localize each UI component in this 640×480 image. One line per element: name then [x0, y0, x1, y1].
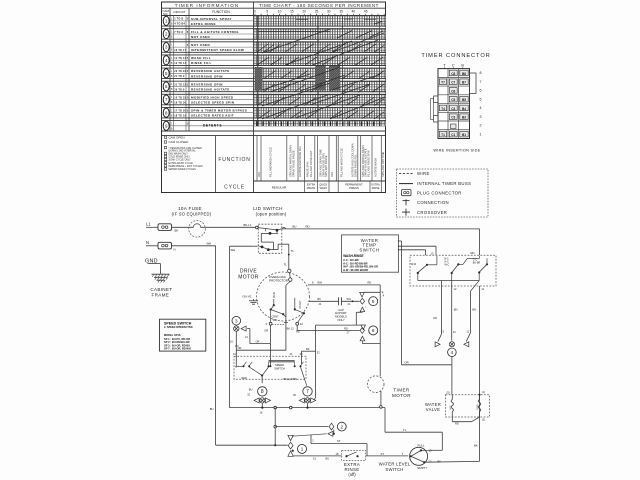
- bottom distribution wire y=407: [230, 407, 386, 409]
- svg-text:4: 4: [480, 106, 482, 110]
- svg-text:SPEED SWITCH: SPEED SWITCH: [164, 322, 192, 326]
- extra rinse label: [344, 462, 360, 477]
- svg-text:MODEL SP16: MODEL SP16: [164, 333, 181, 337]
- svg-text:RINSE: RINSE: [372, 187, 380, 190]
- wire motor top to right bus (WH): [308, 281, 380, 285]
- svg-text:BK-L1: BK-L1: [244, 223, 252, 227]
- svg-text:OFF: OFF: [257, 171, 261, 177]
- water level switch label: [379, 462, 411, 472]
- svg-text:35: 35: [339, 10, 343, 14]
- svg-text:30: 30: [327, 10, 331, 14]
- svg-text:GN-YE: GN-YE: [243, 295, 252, 299]
- wire bottom cluster diagonal to triangle: [292, 429, 335, 436]
- svg-text:1 TO B: 1 TO B: [174, 18, 183, 21]
- svg-text:ST: ST: [337, 439, 341, 443]
- cam rows: [162, 16, 386, 136]
- plug triangle below connector 5: [360, 307, 367, 312]
- legend notes cell: [164, 135, 203, 171]
- svg-text:12 TO 14: 12 TO 14: [174, 62, 186, 65]
- svg-text:SELECTED RATES AGIT: SELECTED RATES AGIT: [191, 114, 234, 118]
- svg-text:OFF: OFF: [330, 171, 334, 177]
- svg-text:BK: BK: [318, 297, 322, 301]
- svg-text:WH: WH: [347, 297, 351, 301]
- svg-text:N: N: [174, 248, 176, 252]
- wire contact 13 down to valve connector: [433, 281, 444, 342]
- legend crossover entry: [402, 209, 447, 216]
- svg-text:10: 10: [278, 10, 282, 14]
- svg-text:MOTOR: MOTOR: [238, 274, 259, 280]
- time scale labels 0-45: [254, 10, 384, 16]
- right bus from lid switch down: [479, 229, 481, 462]
- connector circle 7: [293, 387, 312, 397]
- connector circle 4: [448, 348, 457, 357]
- diamond plug at connector 2: [329, 423, 334, 430]
- svg-text:TL: TL: [284, 263, 288, 267]
- svg-text:B5: B5: [462, 98, 466, 102]
- wire plug to left bus corner (WH): [172, 241, 216, 246]
- svg-text:RD: RD: [368, 281, 372, 285]
- wire connector 4 to water valve: [451, 357, 453, 365]
- svg-text:0: 0: [254, 10, 256, 14]
- svg-text:(5): (5): [447, 391, 450, 395]
- wire to connector 2: [275, 426, 328, 428]
- timer connector left tabs: [431, 96, 438, 122]
- svg-text:T7: T7: [441, 81, 445, 85]
- left neutral bus down: [215, 246, 217, 445]
- svg-text:21 TO 9: 21 TO 9: [174, 75, 185, 78]
- wire triangle to OR junction (21): [245, 329, 270, 344]
- wire water level switch to right bus: [424, 460, 479, 463]
- svg-text:(off): (off): [348, 472, 356, 477]
- lid switch contacts: [255, 226, 288, 251]
- wire N to plug: [146, 245, 158, 247]
- svg-text:20: 20: [302, 10, 306, 14]
- speed switch box (dashed): [234, 356, 306, 379]
- svg-text:B8: B8: [462, 72, 466, 76]
- temp contact W-W: [411, 256, 437, 281]
- svg-text:PROTECTOR: PROTECTOR: [269, 278, 289, 282]
- svg-text:OR: OR: [405, 360, 409, 364]
- motor main winding: [270, 292, 276, 311]
- svg-text:SELECTED SPEED SPIN: SELECTED SPEED SPIN: [191, 101, 234, 105]
- lid switch SW1 (dashed box): [258, 224, 282, 253]
- svg-text:6: 6: [372, 328, 375, 333]
- wire temp box to contact 13: [398, 246, 436, 255]
- svg-text:SPIN & TIMER MOTOR BYPASS: SPIN & TIMER MOTOR BYPASS: [191, 109, 247, 113]
- svg-text:BU: BU: [326, 456, 330, 460]
- connector circle 8: [247, 387, 267, 397]
- connector circle 6: [369, 326, 378, 335]
- svg-text:8: 8: [261, 389, 264, 395]
- svg-text:C8: C8: [451, 72, 455, 76]
- svg-text:8: 8: [480, 71, 482, 75]
- temp contact H-C: [445, 256, 480, 281]
- svg-text:4: 4: [451, 350, 454, 355]
- svg-text:INTERNAL TIMER BUSS: INTERNAL TIMER BUSS: [417, 181, 471, 186]
- svg-text:AGITATE AND WASH FILL: AGITATE AND WASH FILL: [298, 145, 302, 177]
- plug connector P1: [158, 224, 172, 231]
- speed switch labels 10 11 5: [233, 352, 303, 369]
- svg-text:1: 1: [301, 447, 304, 452]
- svg-text:EMPTY: EMPTY: [418, 466, 428, 470]
- svg-text:SWITCH: SWITCH: [274, 367, 285, 371]
- valve solenoid hot (coil): [447, 391, 454, 412]
- svg-text:L1: L1: [146, 221, 151, 226]
- svg-text:RINSE FILL: RINSE FILL: [191, 61, 212, 65]
- svg-text:4 TO B4: 4 TO B4: [174, 23, 185, 26]
- wire motor main to OR run: [236, 346, 286, 350]
- crossover below connector 3: [234, 326, 239, 331]
- svg-text:20 TO 22: 20 TO 22: [174, 70, 186, 73]
- diamond plug at connector 1: [288, 442, 293, 449]
- svg-text:C5: C5: [451, 98, 455, 102]
- connector circle 3: [232, 316, 241, 325]
- svg-text:12 TO 13: 12 TO 13: [174, 57, 186, 60]
- svg-text:BU(L)/SPIN: BU(L)/SPIN: [284, 377, 298, 381]
- temp contact rail: [418, 280, 479, 282]
- svg-text:FULL: FULL: [418, 444, 425, 448]
- svg-text:3: 3: [235, 318, 238, 323]
- wire lid switch to overload (TL): [284, 244, 295, 269]
- svg-text:6: 6: [480, 89, 482, 93]
- svg-text:2: 2: [341, 424, 344, 429]
- svg-text:(1): (1): [482, 390, 485, 394]
- svg-text:CIRCUIT: CIRCUIT: [173, 10, 185, 14]
- wire connector 6 to bus: [360, 336, 380, 343]
- svg-text:15: 15: [290, 10, 294, 14]
- label lid switch: [253, 206, 287, 216]
- motor neutral bus down: [229, 246, 231, 407]
- cycle row: [254, 181, 386, 193]
- svg-text:RD: RD: [344, 327, 348, 331]
- svg-text:BU: BU: [249, 387, 253, 391]
- svg-text:15 TO 32: 15 TO 32: [174, 96, 186, 99]
- svg-text:FILL AND WASH CYCLE: FILL AND WASH CYCLE: [268, 147, 272, 177]
- wire overload into motor: [284, 281, 290, 350]
- svg-text:FRAME: FRAME: [152, 292, 170, 297]
- svg-text:ST: ST: [381, 452, 385, 456]
- plug triangles and crossover at connector 4: [435, 342, 469, 347]
- svg-text:WASH-RINSE: WASH-RINSE: [343, 254, 363, 258]
- label 10A fuse: [172, 206, 212, 216]
- svg-text:RD: RD: [306, 225, 310, 229]
- svg-text:C6: C6: [451, 89, 455, 93]
- svg-text:NOT USED: NOT USED: [191, 43, 210, 47]
- svg-text:SPEED: SPEED: [275, 363, 284, 367]
- svg-text:TL: TL: [403, 428, 407, 432]
- wire branch down from distribution: [274, 408, 277, 447]
- svg-text:C4: C4: [451, 107, 455, 111]
- svg-text:20 TO 9: 20 TO 9: [174, 88, 185, 91]
- extra rinse switch (dashed box): [336, 451, 366, 461]
- connector circle 2: [337, 422, 346, 431]
- svg-text:PLUG CONNECTOR: PLUG CONNECTOR: [417, 191, 462, 196]
- svg-text:SPIN DRY PAUSE: SPIN DRY PAUSE: [324, 155, 328, 177]
- svg-text:21 TO 22: 21 TO 22: [174, 83, 186, 86]
- wire motor BK to connector 7 region: [302, 325, 321, 400]
- svg-text:45: 45: [364, 10, 368, 14]
- timer connector pin labels: [439, 70, 468, 137]
- svg-text:(IF SO EQUIPPED): (IF SO EQUIPPED): [172, 211, 212, 216]
- svg-text:SUB-INTERVAL SPRAY: SUB-INTERVAL SPRAY: [191, 17, 232, 21]
- svg-text:16 TO 17: 16 TO 17: [174, 49, 186, 52]
- svg-text:B4: B4: [462, 107, 466, 111]
- table titles: [175, 3, 379, 8]
- wire contact 11 down to valve connector (BN): [466, 281, 479, 342]
- svg-text:7 TO 8: 7 TO 8: [174, 31, 183, 34]
- motor internal ground GN-YE: [243, 295, 259, 305]
- bus from motor top down to timer motor: [380, 285, 384, 377]
- svg-text:BU: BU: [293, 225, 297, 229]
- svg-text:B1: B1: [462, 133, 466, 137]
- wire motor neutral branch top (WH): [230, 246, 258, 252]
- svg-text:BN: BN: [472, 307, 476, 311]
- svg-text:PRESS: PRESS: [307, 187, 316, 190]
- timer motor TM (dashed circle): [367, 376, 384, 393]
- svg-text:CROSSOVER: CROSSOVER: [417, 210, 447, 215]
- svg-text:SWITCH: SWITCH: [385, 467, 403, 472]
- diamond plug at connector 5: [360, 298, 364, 304]
- svg-text:REVERSING SPIN: REVERSING SPIN: [191, 82, 223, 86]
- svg-text:DETENTS: DETENTS: [203, 123, 222, 127]
- svg-text:MAIN: MAIN: [272, 292, 276, 299]
- svg-text:FILL AND WASH CYCLE: FILL AND WASH CYCLE: [339, 148, 343, 177]
- svg-text:B7: B7: [462, 81, 466, 85]
- plug triangle right of connector 3: [241, 326, 246, 331]
- svg-text:1: 1: [480, 132, 482, 136]
- svg-text:SPRAY RINSE PAUSE: SPRAY RINSE PAUSE: [292, 150, 296, 177]
- svg-text:W-W: W-W: [411, 263, 417, 266]
- svg-text:SPIN AND DRY TIME: SPIN AND DRY TIME: [381, 152, 385, 177]
- svg-text:C1: C1: [451, 133, 455, 137]
- svg-text:2- SPEED INTERACTIVE: 2- SPEED INTERACTIVE: [164, 326, 193, 329]
- svg-text:7: 7: [306, 389, 309, 395]
- svg-text:TIME CHART - 180 SECONDS PER I: TIME CHART - 180 SECONDS PER INCREMENT: [259, 3, 379, 8]
- svg-text:BK: BK: [175, 229, 179, 233]
- svg-text:T4: T4: [441, 107, 445, 111]
- junction open circles on distribution wire: [274, 406, 292, 409]
- water valve label: [425, 402, 441, 412]
- svg-text:SW: SW: [273, 318, 278, 322]
- svg-text:B3: B3: [462, 116, 466, 120]
- svg-text:MOTOR: MOTOR: [392, 393, 411, 398]
- wire temp box to contact 14: [398, 250, 426, 255]
- svg-text:FILL AND RINSE SPIN: FILL AND RINSE SPIN: [366, 150, 370, 177]
- svg-text:CYCLE: CYCLE: [224, 185, 245, 191]
- wire contact 12 down to valve connector (BN): [452, 281, 458, 341]
- function cycle label cell: [216, 136, 251, 193]
- wire temp box to OR bus: [398, 241, 402, 365]
- chart cam profile lines: [257, 19, 385, 119]
- legend internal timer buss entry: [399, 181, 471, 186]
- svg-text:FUNCTION: FUNCTION: [218, 157, 250, 163]
- svg-text:OR: OR: [256, 340, 260, 344]
- svg-text:HOT: HOT: [450, 405, 452, 410]
- svg-text:CAM OPEN: CAM OPEN: [169, 135, 185, 139]
- svg-text:WIRE INSERTION SIDE: WIRE INSERTION SIDE: [433, 149, 480, 153]
- svg-text:5: 5: [480, 97, 482, 101]
- wire L1 to plug: [146, 226, 158, 228]
- wire tap to ST run: [311, 435, 367, 456]
- svg-text:MODIFIED HIGH SPEED: MODIFIED HIGH SPEED: [191, 95, 234, 99]
- svg-text:REVERSING SPIN: REVERSING SPIN: [191, 74, 223, 78]
- wire connector 3 down to speed switch: [230, 331, 239, 366]
- svg-text:BN: BN: [454, 307, 458, 311]
- speed switch info box: [160, 319, 206, 351]
- wire distribution corner to water level switch: [385, 408, 442, 451]
- speed switch contacts: [236, 361, 303, 368]
- svg-text:FILL AND RINSE AGIT: FILL AND RINSE AGIT: [309, 150, 313, 177]
- chart heavy gridlines: [258, 16, 380, 126]
- svg-text:INTERMITTENT SPEED SLOW: INTERMITTENT SPEED SLOW: [191, 48, 244, 52]
- svg-text:REVERSING AGITATE: REVERSING AGITATE: [191, 69, 230, 73]
- function rotated labels: [257, 143, 385, 177]
- svg-text:TIMER INFORMATION: TIMER INFORMATION: [175, 3, 239, 8]
- valve solenoid cold (coil): [477, 390, 485, 411]
- wire RD to connector 6: [297, 325, 360, 335]
- connector circle 5: [369, 297, 378, 306]
- svg-text:BU-BR: BU-BR: [473, 261, 481, 264]
- wire lid switch to right bus (BU/RD): [277, 225, 480, 230]
- svg-text:ONLY: ONLY: [337, 318, 345, 322]
- svg-text:BK: BK: [306, 347, 310, 351]
- svg-text:5: 5: [266, 10, 268, 14]
- timer connector column labels T C B: [443, 64, 464, 69]
- motor start winding: [294, 298, 305, 323]
- svg-text:3: 3: [480, 115, 482, 119]
- svg-text:BU: BU: [210, 407, 214, 411]
- svg-text:WH: WH: [207, 241, 212, 245]
- svg-text:RED: RED: [242, 376, 248, 380]
- svg-text:BK: BK: [287, 326, 291, 330]
- svg-text:PRESS: PRESS: [349, 186, 359, 190]
- svg-text:2: 2: [480, 124, 482, 128]
- svg-text:DOWN RINSE FILL: DOWN RINSE FILL: [354, 154, 358, 177]
- crossover and triangles below connector 7: [299, 398, 315, 409]
- chart dark cam blocks: [255, 66, 340, 91]
- svg-text:(open position): (open position): [256, 211, 287, 216]
- detent tick marks row 9: [257, 122, 380, 127]
- timer connector right bracket: [470, 73, 477, 94]
- svg-text:C: C: [452, 64, 455, 68]
- svg-text:W-C: W-C: [445, 263, 450, 266]
- svg-text:RD: RD: [471, 251, 475, 255]
- temp contact C-C: [473, 258, 488, 280]
- svg-text:EXTRA RINSE: EXTRA RINSE: [191, 22, 216, 26]
- svg-text:VALVE: VALVE: [426, 407, 440, 412]
- table column headers: [162, 8, 230, 131]
- svg-text:FILL & AGITATE CONTROL: FILL & AGITATE CONTROL: [191, 30, 239, 34]
- valve bottom wire RD: [452, 412, 485, 426]
- wire to extra rinse switch: [293, 456, 342, 461]
- svg-text:C3: C3: [451, 116, 455, 120]
- diamond plug at connector 6: [360, 327, 364, 333]
- svg-text:C7: C7: [451, 81, 455, 85]
- svg-text:REVERSING AGITATE: REVERSING AGITATE: [191, 87, 230, 91]
- drive motor label: [238, 268, 259, 280]
- svg-text:OR: OR: [238, 346, 242, 350]
- svg-text:AGITATE WASH: AGITATE WASH: [374, 158, 378, 177]
- svg-text:TIMER: TIMER: [393, 387, 410, 392]
- wire extra rinse to water level switch: [366, 452, 409, 456]
- svg-text:T1: T1: [441, 133, 445, 137]
- water level switch WLS: [410, 444, 442, 470]
- overload protector OL1: [269, 269, 292, 282]
- timer motor label: [392, 387, 411, 398]
- svg-text:16 TO 30: 16 TO 30: [174, 101, 186, 104]
- water temp switch info box: [342, 235, 399, 272]
- svg-text:WASH: WASH: [320, 187, 328, 190]
- svg-text:N: N: [146, 240, 149, 245]
- svg-text:OR: OR: [264, 329, 268, 333]
- bottom left wire from neutral bus: [216, 444, 288, 446]
- wire fuse to lid switch: [205, 226, 257, 228]
- svg-text:SP 7 : BU-OR, RD-WH: SP 7 : BU-OR, RD-WH: [164, 347, 191, 351]
- wire plug to fuse: [172, 226, 190, 228]
- svg-text:OR: OR: [433, 316, 437, 320]
- svg-text:FUNCTION: FUNCTION: [212, 10, 230, 14]
- legend connection entry: [403, 199, 449, 205]
- svg-text:25: 25: [315, 10, 319, 14]
- OR wire to water valve: [402, 360, 452, 394]
- svg-text:BK: BK: [438, 459, 442, 463]
- motor centrifugal switch: [265, 310, 303, 334]
- wire speed switch to connector 7: [301, 367, 307, 386]
- wire cent switch to speed switch (OR): [264, 325, 270, 366]
- fuse F1 (dashed circle): [189, 221, 206, 238]
- svg-text:CONNECTION: CONNECTION: [417, 200, 449, 205]
- drive motor M1 (dashed circle): [257, 272, 310, 321]
- svg-text:WH: WH: [317, 281, 322, 285]
- wire timer motor to distribution wire: [380, 391, 383, 408]
- svg-text:START: START: [298, 300, 302, 309]
- svg-text:40: 40: [352, 10, 356, 14]
- svg-text:WATER SAVER CYCLES: WATER SAVER CYCLES: [169, 168, 197, 171]
- function column dividers: [257, 136, 381, 181]
- svg-text:18 TO 16: 18 TO 16: [174, 115, 186, 118]
- time chart fine grid: [254, 16, 386, 126]
- label cabinet frame: [150, 287, 172, 297]
- triangle plug up at bottom cluster: [288, 451, 293, 456]
- svg-text:NOT USED: NOT USED: [191, 35, 210, 39]
- svg-text:(3): (3): [482, 418, 485, 422]
- timer connector body: [438, 69, 470, 139]
- capacitor C1 export models: [309, 297, 360, 322]
- timer connector pin numbers: [480, 71, 482, 136]
- svg-text:SWITCH: SWITCH: [359, 247, 379, 252]
- wire speed switch to connector 8: [242, 367, 269, 383]
- svg-text:REGULAR: REGULAR: [272, 185, 287, 189]
- timer information table frame: [162, 2, 386, 193]
- svg-text:H-W : BU-RD BN-RD: H-W : BU-RD BN-RD: [343, 268, 368, 272]
- speed switch label: [274, 363, 297, 381]
- legend plug connector entry: [402, 190, 462, 196]
- labels 12 and 11 below contact box: [454, 287, 485, 291]
- svg-text:5: 5: [372, 299, 375, 304]
- water temp switch contact box (dashed): [410, 255, 496, 286]
- wire speed switch bus to connector 6 plug: [316, 325, 366, 330]
- svg-text:CAM CLOSED: CAM CLOSED: [169, 140, 190, 144]
- plug connector P2: [158, 242, 172, 249]
- triangle plug down at bottom cluster: [288, 435, 293, 440]
- svg-text:22: 22: [300, 322, 304, 326]
- svg-text:BK: BK: [474, 443, 478, 447]
- svg-text:WH: WH: [231, 248, 236, 252]
- wire bus tap to connector 5: [360, 292, 381, 297]
- svg-text:WASH FILL: WASH FILL: [191, 56, 211, 60]
- svg-text:COLD: COLD: [477, 404, 479, 410]
- svg-text:17 TO 30: 17 TO 30: [174, 109, 186, 112]
